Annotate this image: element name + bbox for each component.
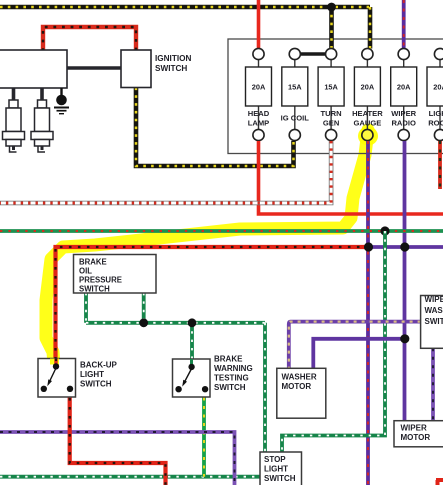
wire: red feed above HEAD LAMP fuse [257,0,261,49]
ignition switch box U1 [121,50,151,88]
svg-text:WASHER: WASHER [282,373,317,382]
svg-text:SWITCH: SWITCH [264,474,296,483]
svg-text:WASHER: WASHER [425,306,443,315]
svg-text:IG COIL: IG COIL [281,114,310,123]
svg-text:MOTOR: MOTOR [401,433,431,442]
svg-text:BACK-UP: BACK-UP [80,361,118,370]
svg-text:OIL: OIL [79,267,92,276]
svg-text:15A: 15A [324,83,338,92]
wire: black jumper IG COIL to TURN GEN top [295,52,331,55]
svg-text:SWITCH: SWITCH [155,64,187,73]
svg-text:STOP: STOP [264,455,286,464]
svg-text:WIPER: WIPER [425,295,443,304]
svg-text:WIPER: WIPER [401,424,427,433]
svg-text:SWITCH: SWITCH [80,380,112,389]
svg-text:LIGHT: LIGHT [80,370,104,379]
svg-text:TESTING: TESTING [214,374,249,383]
wire: red/black from LIGHTER ROOM fuse down (dead-ends at image note) [438,141,442,189]
brake warning testing switch S3 [173,359,211,397]
svg-text:BRAKE: BRAKE [79,258,107,267]
highlighter trace (yellow) from HEATER GAUGE fuse to back-up light switch [46,127,378,366]
svg-text:15A: 15A [288,83,302,92]
svg-text:WIPER: WIPER [391,109,416,118]
washer motor M1 [277,368,326,418]
fuse F3 15A TURN GEN [318,48,344,140]
wire: red stub at bottom right corner [436,480,443,485]
svg-text:GAUGE: GAUGE [353,119,381,128]
svg-text:TURN: TURN [321,109,342,118]
wire: red/black highlighted run to back-up light switch [56,247,369,367]
junction: purple/red vertical at red/black run [364,242,373,251]
stop light switch S4 [260,452,302,485]
junction: green drop on green/red bus [380,226,389,235]
fuse F6 20A LIGHTER ROOM [427,48,443,140]
svg-text:LIGHT: LIGHT [264,465,288,474]
svg-text:PRESSURE: PRESSURE [79,276,122,285]
svg-text:20A: 20A [433,83,443,92]
junction: black/yellow feed split [327,3,336,12]
svg-text:20A: 20A [361,83,375,92]
wire: purple continuation of that run to right edge [369,245,443,249]
svg-text:SWITCH: SWITCH [79,285,110,294]
wire: purple/red feed above WIPER RADIO fuse [402,0,406,49]
junction: washer branch on purple vertical [400,334,409,343]
svg-text:20A: 20A [397,83,411,92]
svg-text:SWITCH: SWITCH [214,383,246,392]
coil / distributor box [0,50,67,88]
spark plug 2 [31,88,53,152]
wire: red/black from coil to ignition switch [43,27,136,51]
wire: green/yellow from brake warning testing switch to bottom bus [202,389,206,477]
junction: purple vertical at purple run [400,242,409,251]
wire: black from coil box to ignition switch [67,66,121,69]
svg-text:LAMP: LAMP [248,119,270,128]
wire: purple from WIPER RADIO fuse down to wiper motor [403,141,407,421]
back-up light switch S2 [38,359,76,398]
junction: green leg at bus [139,318,148,327]
wire: green/white from brake oil pressure switch legs [86,293,265,454]
wire: purple/black from wiper washer switch bottom to wiper motor [431,348,435,420]
wire: red/white from TURN GEN fuse down then left to x=0 [0,141,331,203]
svg-text:GEN: GEN [323,119,339,128]
wire: green/white bottom bus to stop light switch [0,475,260,479]
wiper motor M2 [394,421,443,447]
fuse F2 15A IG COIL [281,48,310,140]
wire: red/black from back-up light switch to bottom edge [70,389,166,485]
wire: green/red horizontal bus [0,229,443,233]
wire: purple/red from HEATER GAUGE fuse down full height [366,141,370,485]
fuse panel outline [228,39,443,154]
wire: battery feed black/yellow top horizontal [0,7,370,49]
svg-text:20A: 20A [252,83,266,92]
svg-text:BRAKE: BRAKE [214,355,243,364]
fuse F4 20A HEATER GAUGE [352,48,383,140]
svg-text:HEAD: HEAD [248,109,270,118]
fuse F1 20A HEAD LAMP [246,48,272,140]
wire: black/yellow ignition switch to IG COIL fuse [136,88,294,167]
svg-text:RADIO: RADIO [391,119,416,128]
wire: purple/black long horizontal then down at x=234.5 [0,432,235,485]
ground symbol at coil box [54,88,69,114]
svg-text:LIGHT: LIGHT [429,109,443,118]
svg-text:IGNITION: IGNITION [155,54,191,63]
svg-text:ROOM: ROOM [428,119,443,128]
svg-text:SWITCH: SWITCH [425,317,443,326]
svg-text:HEATER: HEATER [352,109,383,118]
wire: purple from wiper radio feed to washer motor [313,339,405,369]
brake oil pressure switch S1 [74,255,157,294]
svg-text:WARNING: WARNING [214,364,253,373]
spark plug 1 [3,88,25,152]
wire: red from HEAD LAMP fuse down then right [259,141,443,214]
wiper washer switch S5 [421,296,443,349]
wire: purple/tan from wiper washer switch to washer motor [289,322,421,369]
wire: green/white drop from green/red bus to stop light switch [282,231,385,454]
svg-text:MOTOR: MOTOR [282,382,312,391]
junction: green drop to brake warning switch [188,318,197,327]
fuse F5 20A WIPER RADIO [391,48,417,140]
